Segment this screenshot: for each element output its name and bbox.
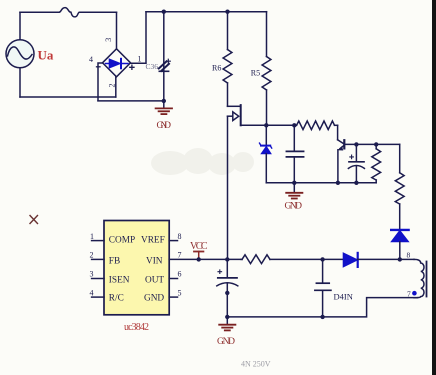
wire: bridge top corner up	[116, 12, 118, 49]
node: emitter bottom junction	[336, 181, 340, 185]
node: D4 cap junction	[320, 257, 324, 261]
node: VCC junction	[197, 257, 201, 261]
pin 8 stub	[169, 240, 177, 242]
svg-text:D4IN: D4IN	[334, 292, 353, 302]
wire: bottom wire of network	[266, 182, 376, 184]
svg-text:2: 2	[108, 84, 117, 88]
svg-text:3: 3	[90, 270, 94, 279]
svg-text:4: 4	[89, 55, 93, 64]
wire: AC bottom to bridge	[20, 96, 116, 98]
watermark smudge	[151, 148, 254, 175]
pin 5 stub	[169, 296, 177, 298]
node: GND2 junction	[292, 181, 296, 185]
node: gate wire junction	[225, 257, 229, 261]
node: diode winding junction	[398, 257, 402, 261]
wire: AC source bottom lead	[19, 68, 21, 97]
capacitor C36	[159, 59, 171, 71]
svg-text:7: 7	[178, 251, 182, 260]
node: cap C9 bottom junction	[225, 315, 229, 319]
svg-text:8: 8	[178, 232, 182, 241]
red x mark	[30, 216, 38, 224]
node: cap C10 bottom junction	[320, 315, 324, 319]
resistor R10 horizontal	[241, 255, 323, 264]
VCC symbol	[190, 241, 208, 260]
svg-text:VCC: VCC	[190, 241, 208, 252]
svg-text:3: 3	[104, 38, 113, 42]
node: rail-R6 junction	[225, 10, 229, 14]
pin 4 stub	[92, 296, 104, 298]
svg-text:GND: GND	[157, 121, 172, 131]
node: bottom rail GND junction	[162, 99, 166, 103]
wire: AC source top lead	[19, 12, 21, 40]
node: cap C9 mid junction	[225, 291, 229, 295]
wire: gate vertical down	[227, 116, 229, 259]
diode D4	[323, 253, 400, 267]
svg-text:R/C: R/C	[109, 294, 124, 304]
ground GND1	[156, 101, 172, 114]
svg-text:GND: GND	[144, 294, 164, 304]
resistor R5	[262, 12, 271, 126]
node: source junction	[264, 123, 268, 127]
svg-text:1: 1	[138, 55, 142, 64]
resistor R7 horizontal	[297, 121, 338, 130]
pin 6 stub	[169, 278, 177, 280]
fuse F1	[59, 8, 80, 17]
wire: VIN wire	[169, 258, 241, 260]
MOSFET Q1	[228, 105, 267, 125]
wire: right branch corner	[399, 144, 401, 172]
svg-text:GND: GND	[285, 202, 303, 212]
ground GND3	[219, 317, 235, 331]
transformer T1 winding	[400, 259, 427, 297]
svg-text:5: 5	[178, 288, 182, 297]
diode D3	[391, 230, 408, 260]
pin 3 stub	[92, 278, 104, 280]
IC U1 uc3842	[104, 221, 169, 315]
node: cap junction top	[292, 123, 296, 127]
wire: bridge output right	[131, 12, 147, 64]
svg-text:VIN: VIN	[146, 256, 163, 266]
wire: bridge bottom corner loop	[115, 77, 117, 97]
resistor R9 vertical	[395, 173, 404, 230]
svg-text:2: 2	[90, 251, 94, 260]
pin 2 stub	[92, 258, 104, 260]
transformer polarity dot	[412, 291, 417, 296]
bridge polarity minus	[97, 66, 101, 68]
capacitor C8 polarized	[348, 144, 364, 182]
ground GND2	[286, 183, 302, 199]
AC source Ua	[6, 40, 34, 68]
svg-text:COMP: COMP	[109, 235, 135, 245]
svg-text:6: 6	[178, 270, 182, 279]
svg-text:VREF: VREF	[141, 235, 165, 245]
svg-text:C36: C36	[146, 62, 159, 71]
wire: C36 branch vertical	[163, 12, 165, 101]
zener diode D2	[260, 125, 272, 183]
node: cap C8 bottom junction	[354, 181, 358, 185]
svg-text:4: 4	[90, 288, 94, 297]
svg-text:OUT: OUT	[145, 275, 164, 285]
svg-text:R5: R5	[251, 69, 260, 78]
svg-text:4N 250V: 4N 250V	[241, 359, 271, 368]
wire: bridge left corner loop	[98, 63, 103, 101]
node: cap C8 top junction	[354, 142, 358, 146]
transistor Q2	[338, 125, 345, 183]
svg-text:R6: R6	[212, 64, 221, 73]
wire: base wire right	[344, 143, 399, 145]
bridge rectifier D1	[103, 49, 131, 77]
capacitor C7	[286, 125, 303, 183]
wire: fuse to bridge top	[80, 11, 117, 13]
svg-text:ISEN: ISEN	[109, 275, 130, 285]
bridge polarity plus	[130, 65, 134, 69]
svg-text:7: 7	[407, 289, 411, 298]
wire: +V rail	[146, 11, 267, 13]
svg-text:FB: FB	[109, 256, 120, 266]
node: rail-C36 junction	[162, 10, 166, 14]
svg-text:uc3842: uc3842	[124, 322, 149, 333]
wire: bottom rail to GND node	[98, 100, 164, 102]
svg-text:GND: GND	[217, 337, 235, 347]
wire: top wire to cap/resistor	[266, 124, 296, 126]
wire: AC line top left	[20, 11, 59, 13]
resistor R6	[223, 12, 232, 107]
black border right edge	[432, 0, 436, 375]
svg-text:1: 1	[90, 232, 94, 241]
resistor R8 vertical	[372, 144, 381, 182]
svg-text:Ua: Ua	[38, 48, 54, 63]
capacitor C10	[315, 259, 331, 317]
node: resistor R8 top junction	[374, 142, 378, 146]
svg-text:8: 8	[407, 250, 411, 259]
wire: secondary bottom loop	[227, 298, 417, 317]
pin 1 stub	[92, 240, 104, 242]
capacitor C9 under VIN wire	[217, 259, 238, 317]
